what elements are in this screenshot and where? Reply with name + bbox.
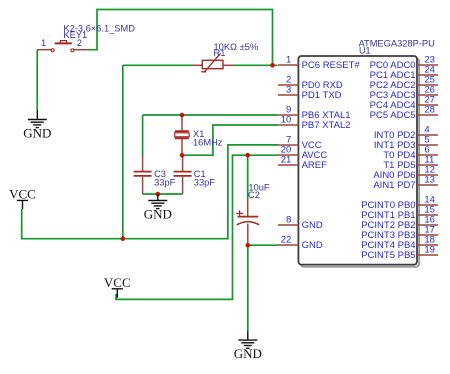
svg-text:U1: U1	[359, 46, 371, 56]
svg-text:GND: GND	[144, 206, 172, 221]
svg-text:19: 19	[424, 245, 435, 256]
svg-text:VCC: VCC	[104, 275, 131, 290]
svg-text:AREF: AREF	[302, 160, 328, 171]
svg-text:AIN1 PD7: AIN1 PD7	[373, 180, 415, 191]
svg-text:28: 28	[424, 105, 435, 116]
svg-text:GND: GND	[234, 346, 262, 361]
svg-text:R1: R1	[214, 48, 226, 58]
svg-text:C2: C2	[248, 190, 260, 200]
svg-text:VCC: VCC	[9, 187, 36, 202]
svg-text:1: 1	[41, 38, 46, 48]
svg-text:1: 1	[286, 55, 291, 66]
svg-text:KEY1: KEY1	[63, 30, 87, 40]
svg-text:PD1 TXD: PD1 TXD	[302, 90, 342, 101]
svg-text:10: 10	[281, 115, 292, 126]
svg-text:33pF: 33pF	[194, 177, 216, 187]
svg-text:GND: GND	[302, 220, 323, 231]
svg-text:21: 21	[281, 155, 292, 166]
svg-text:PC5 ADC5: PC5 ADC5	[370, 110, 416, 121]
svg-text:33pF: 33pF	[154, 177, 176, 187]
svg-text:16MHz: 16MHz	[193, 138, 223, 148]
svg-text:GND: GND	[302, 240, 323, 251]
svg-text:PCINT5 PB5: PCINT5 PB5	[361, 250, 415, 261]
svg-text:3: 3	[286, 85, 291, 96]
svg-text:13: 13	[424, 175, 435, 186]
svg-text:8: 8	[286, 215, 291, 226]
svg-text:PC6 RESET#: PC6 RESET#	[302, 60, 361, 71]
svg-text:GND: GND	[23, 125, 51, 140]
svg-text:22: 22	[281, 235, 292, 246]
svg-text:PB7 XTAL2: PB7 XTAL2	[302, 120, 351, 131]
